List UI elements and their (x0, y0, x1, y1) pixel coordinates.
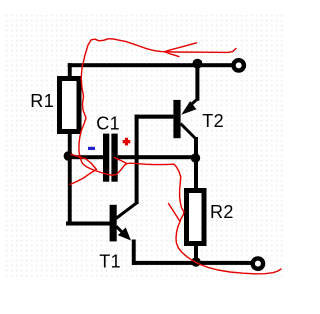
wire top rail (68, 63, 234, 67)
annotation arrow barb near R2 (169, 204, 181, 222)
svg-text:T2: T2 (202, 111, 224, 131)
wire left vertical branch (68, 63, 72, 225)
annotation zigzag arrow at junction A (70, 154, 97, 184)
resistor R1 (60, 79, 80, 132)
wire junction A to C1 (66, 155, 104, 159)
node junction top (192, 59, 202, 69)
annotation arrowhead lower barb (165, 52, 180, 57)
terminal top (234, 60, 244, 70)
annotation red left descent and sweep stroke (79, 88, 281, 274)
polarity minus (88, 147, 95, 150)
terminal bottom (253, 258, 263, 268)
svg-text:C1: C1 (96, 114, 120, 134)
transistor T2 (173, 99, 197, 139)
wire T2 collector vertical (194, 137, 198, 158)
resistor R2 (187, 191, 205, 244)
annotation arrow barb near C1 (115, 158, 128, 164)
wire T1 collector vertical (135, 115, 139, 205)
capacitor C1 (103, 134, 118, 182)
wire bottom rail (132, 261, 251, 265)
wire junction A leg to T1 base (66, 222, 110, 226)
node junction B (191, 153, 200, 162)
wire T1 emitter vertical (132, 240, 136, 265)
svg-text:R1: R1 (30, 91, 54, 111)
transistor T1 (110, 203, 137, 241)
wire junction B to R2 (194, 158, 198, 189)
annotation red top stroke (81, 39, 236, 88)
annotation arrowhead upper barb (165, 43, 197, 52)
wire to T2 base (135, 115, 174, 119)
svg-text:T1: T1 (99, 252, 121, 272)
wire T2 emitter vertical (195, 63, 199, 100)
wire R2 bottom stub (194, 245, 198, 263)
wire C1 to junction B (118, 155, 198, 159)
svg-text:R2: R2 (210, 202, 234, 222)
node junction bottom (191, 257, 201, 267)
node junction A (64, 151, 73, 160)
polarity plus (123, 138, 131, 146)
